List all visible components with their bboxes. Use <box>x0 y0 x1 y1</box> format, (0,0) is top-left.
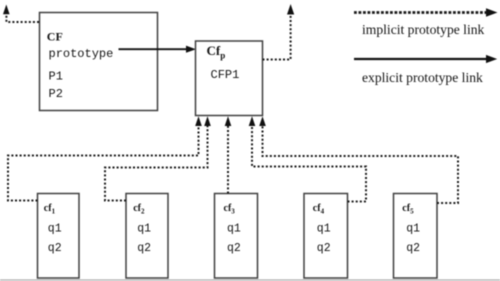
implicit link wire from cf1 to CFp <box>8 116 202 200</box>
label cf3 <box>224 203 236 216</box>
box CF <box>40 13 158 111</box>
implicit prototype link arrow from CF box up-left <box>3 5 39 23</box>
box cf2 <box>126 194 168 279</box>
implicit prototype link arrow from CFp box up-right <box>263 4 295 60</box>
implicit link wire from cf4 to CFp <box>249 116 366 201</box>
svg-text:explicit prototype link: explicit prototype link <box>362 70 483 85</box>
svg-text:q2: q2 <box>227 242 241 255</box>
label CF <box>47 29 63 43</box>
label q2 in cf3 <box>227 242 241 255</box>
bottom gray rule <box>0 279 500 281</box>
svg-text:prototype: prototype <box>49 47 114 61</box>
label P2 <box>49 87 63 101</box>
svg-text:implicit prototype link: implicit prototype link <box>362 22 485 37</box>
box cf3 <box>215 194 258 279</box>
explicit prototype arrow from prototype to CFp box <box>119 46 197 53</box>
legend label explicit prototype link <box>362 70 483 85</box>
legend solid arrow <box>354 55 497 63</box>
svg-text:P2: P2 <box>49 87 63 101</box>
box CFp <box>196 41 263 116</box>
svg-text:q2: q2 <box>406 242 420 255</box>
svg-text:CFP1: CFP1 <box>211 68 240 82</box>
label prototype <box>49 47 114 61</box>
box cf4 <box>304 194 348 279</box>
box cf5 <box>394 194 438 279</box>
label q1 in cf2 <box>137 223 151 236</box>
label cf2 <box>133 203 145 216</box>
box cf1 <box>38 194 80 279</box>
svg-text:q1: q1 <box>317 223 331 236</box>
implicit link wire from cf5 to CFp <box>259 116 458 203</box>
label cf1 <box>44 203 56 216</box>
implicit link wire from cf2 to CFp <box>105 116 211 200</box>
legend label implicit prototype link <box>362 22 485 37</box>
label CFP1 <box>211 68 240 82</box>
label q2 in cf5 <box>406 242 420 255</box>
svg-text:q1: q1 <box>227 223 241 236</box>
label q1 in cf3 <box>227 223 241 236</box>
label q2 in cf4 <box>317 242 331 255</box>
svg-text:CF: CF <box>47 29 63 43</box>
svg-text:P1: P1 <box>49 70 63 84</box>
svg-text:q1: q1 <box>406 223 420 236</box>
legend dashed arrow <box>354 8 498 16</box>
svg-text:q1: q1 <box>137 223 151 236</box>
svg-text:q2: q2 <box>137 242 151 255</box>
label cf5 <box>402 203 414 216</box>
label cf4 <box>313 203 325 216</box>
svg-text:q2: q2 <box>48 242 62 255</box>
svg-text:q1: q1 <box>48 223 62 236</box>
label q2 in cf2 <box>137 242 151 255</box>
label q1 in cf5 <box>406 223 420 236</box>
label q2 in cf1 <box>48 242 62 255</box>
label P1 <box>49 70 63 84</box>
label q1 in cf1 <box>48 223 62 236</box>
label Cfp <box>207 43 226 61</box>
label q1 in cf4 <box>317 223 331 236</box>
implicit link wire from cf3 to CFp <box>225 116 232 193</box>
svg-text:q2: q2 <box>317 242 331 255</box>
